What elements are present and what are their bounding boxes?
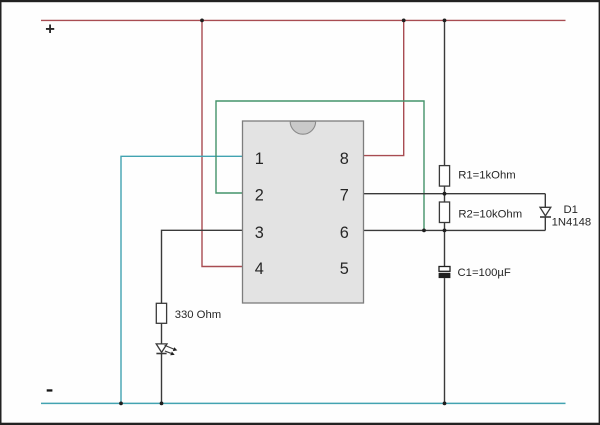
node junction LED branch V- (160, 402, 164, 406)
pin 7 (340, 187, 349, 205)
svg-text:5: 5 (340, 260, 349, 278)
node junction R1 R2 pin7 (443, 192, 447, 196)
resistor R3 330 Ohm (156, 303, 166, 323)
wire V+ rail (41, 19, 566, 21)
wire pin 7 net (364, 193, 546, 195)
resistor R1 value label (458, 169, 515, 181)
pin 3 (255, 224, 264, 242)
wire blue pin 1 to V- (121, 156, 243, 403)
wire green pin 2 to pin 6 net (216, 101, 424, 230)
node junction V+ / R1 branch (443, 19, 447, 23)
svg-text:7: 7 (340, 187, 349, 205)
diode D1 (540, 207, 551, 217)
node junction R2 pin6 net (443, 229, 447, 233)
pin 8 (340, 150, 349, 168)
resistor R1 (439, 166, 449, 187)
svg-text:4: 4 (255, 260, 264, 278)
resistor R3 value label 330 Ohm (175, 309, 221, 321)
svg-text:2: 2 (255, 187, 264, 205)
svg-text:3: 3 (255, 224, 264, 242)
wire V- rail (41, 402, 566, 404)
wire D1 cathode (544, 217, 546, 231)
node junction V+ / red pin4 wire (200, 19, 204, 23)
pin 4 (255, 260, 264, 278)
op-amp U1 IC body (243, 121, 364, 303)
pin 6 (340, 224, 349, 242)
wire black pin 3 to LED branch (162, 230, 243, 303)
wire R3 to LED (161, 323, 163, 344)
svg-text:C1=100µF: C1=100µF (458, 267, 511, 279)
node junction V+ / red pin8 wire (402, 19, 406, 23)
svg-text:R1=1kOhm: R1=1kOhm (458, 169, 515, 181)
svg-text:8: 8 (340, 150, 349, 168)
pin 1 (255, 150, 264, 168)
wire LED to V- (161, 353, 163, 403)
svg-text:6: 6 (340, 224, 349, 242)
wire D1 anode (544, 194, 546, 208)
svg-text:+: + (45, 21, 55, 39)
capacitor C1 value label (458, 267, 511, 279)
node junction blue wire V- (119, 402, 123, 406)
svg-text:1: 1 (255, 150, 264, 168)
wire pin6 node to C1 (444, 230, 446, 266)
pin 2 (255, 187, 264, 205)
node V+ label + (45, 21, 55, 39)
resistor R2 value label (458, 208, 522, 220)
LED D2 (156, 344, 177, 355)
pin 5 (340, 260, 349, 278)
svg-text:330 Ohm: 330 Ohm (175, 309, 221, 321)
wire red V+ to pin 8 (364, 20, 404, 155)
svg-text:D1: D1 (564, 204, 578, 216)
diode D1 reference label (564, 204, 578, 216)
diode D1 value label 1N4148 (552, 217, 592, 229)
wire R1 to node pin7 (444, 186, 446, 194)
svg-text:R2=10kOhm: R2=10kOhm (458, 208, 522, 220)
node V- label - (47, 389, 53, 391)
wire pin 6 net (364, 229, 546, 231)
wire pin7 node to R2 (444, 194, 446, 202)
wire red V+ to pin 4 (202, 20, 243, 266)
resistor R2 (439, 202, 449, 223)
wire R2 to pin 6 net (444, 223, 446, 231)
node junction green wire pin6 net (422, 229, 426, 233)
wire C1 to V- (444, 278, 446, 403)
wire black V+ to R1 (444, 20, 446, 165)
node junction C1 branch V- (443, 402, 447, 406)
svg-text:1N4148: 1N4148 (552, 217, 592, 229)
capacitor C1 (439, 267, 451, 279)
